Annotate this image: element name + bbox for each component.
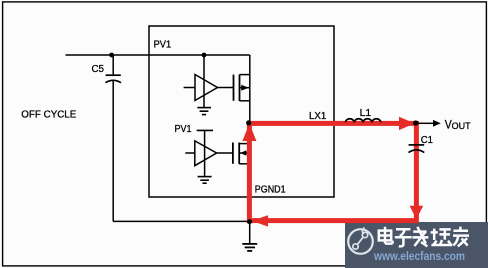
wire: upper MOSFET drain to top rail / source to LX xyxy=(249,55,251,121)
wire: bottom ground rail xyxy=(113,220,250,222)
wire: lower driver input stub xyxy=(185,152,195,154)
wire: lower driver supply drop xyxy=(204,130,206,176)
svg-text:LX1: LX1 xyxy=(309,111,326,122)
transistor lower MOSFET xyxy=(233,143,250,164)
svg-text:L1: L1 xyxy=(360,108,372,119)
wire: LX column (under red) xyxy=(249,123,251,221)
red current loop xyxy=(249,123,416,220)
red arrowhead right (LX rail) xyxy=(399,117,415,130)
node PV1 junction (top rail) xyxy=(109,53,114,58)
svg-text:PV1: PV1 xyxy=(154,40,172,51)
ground (main) xyxy=(242,244,257,251)
capacitor C5 xyxy=(105,75,121,83)
inductor L1 xyxy=(345,119,380,123)
red arrowhead down (C1 branch) xyxy=(410,206,424,220)
ground (upper driver) xyxy=(197,108,211,115)
glyph 5 you xyxy=(453,227,469,247)
node driver supply junction xyxy=(202,53,207,58)
watermark dark box xyxy=(345,222,488,268)
arrow in lower MOSFET (points left) xyxy=(240,150,246,156)
svg-text:C5: C5 xyxy=(92,64,105,75)
wire: upper driver supply drop xyxy=(203,55,205,108)
svg-text:PV1: PV1 xyxy=(175,124,192,135)
red arrowhead left (bottom rail) xyxy=(252,215,268,226)
watermark logo circle xyxy=(348,229,373,254)
svg-text:C1: C1 xyxy=(421,135,433,146)
wire: lower driver output to gate xyxy=(217,152,233,154)
transistor upper MOSFET xyxy=(234,75,250,102)
supply bar (lower driver) xyxy=(197,129,213,131)
wire: top input rail xyxy=(66,54,250,56)
wire: C5 to bottom rail xyxy=(112,81,114,222)
svg-text:PGND1: PGND1 xyxy=(255,184,286,195)
svg-text:www.elecfans.com: www.elecfans.com xyxy=(373,249,465,263)
ground (lower driver) xyxy=(198,177,212,184)
glyph 1 dian xyxy=(379,231,391,241)
red arrowhead up (LX column) xyxy=(242,124,256,142)
op-amp upper gate driver xyxy=(195,75,218,101)
wire: upper driver input stub xyxy=(184,87,195,89)
wire: C5 top stub xyxy=(112,55,114,74)
wire: upper driver output to gate xyxy=(218,87,234,89)
watermark CJK glyph strokes xyxy=(379,227,469,247)
node bottom ground junction xyxy=(247,219,252,224)
glyph 4 shao xyxy=(431,229,453,245)
op-amp lower gate driver xyxy=(195,141,217,166)
node LX junction xyxy=(246,120,251,125)
wire: VOUT arrow xyxy=(418,122,433,124)
svg-text:OUT: OUT xyxy=(452,121,471,132)
capacitor C1 xyxy=(409,145,425,153)
glyph 3 fa xyxy=(412,227,428,247)
arrow in upper MOSFET (points right) xyxy=(241,85,249,91)
glyph 2 zi xyxy=(395,229,412,246)
wire: ground stub xyxy=(249,221,251,243)
svg-text:OFF CYCLE: OFF CYCLE xyxy=(21,109,76,120)
IC box (outline) xyxy=(149,26,334,197)
node VOUT junction xyxy=(413,120,418,125)
